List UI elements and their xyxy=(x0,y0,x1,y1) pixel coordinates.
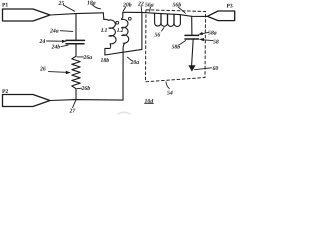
svg-text:18a: 18a xyxy=(87,0,96,6)
wire node 58 down to capacitor 58 xyxy=(191,16,193,35)
leader for 56b xyxy=(178,7,185,13)
leader for 58b xyxy=(180,41,186,45)
leader for 56 xyxy=(162,28,165,31)
underline of 10d xyxy=(145,103,154,105)
wire top rail from P1 to node 25 to corner 18a xyxy=(50,13,103,15)
svg-text:20b: 20b xyxy=(122,1,132,8)
svg-text:58: 58 xyxy=(213,40,219,46)
capacitor 58 plate 58b xyxy=(185,38,199,40)
svg-text:58a: 58a xyxy=(208,30,217,36)
port P1 connector xyxy=(3,9,51,21)
transformer winding L1 xyxy=(109,20,116,44)
wire resistor bottom to node 27 on bottom rail xyxy=(75,89,77,100)
leader for 24a xyxy=(60,30,73,33)
leader for 27 xyxy=(73,100,76,107)
wire riser from jumper up to node 22 on rail xyxy=(141,12,143,49)
svg-text:18b: 18b xyxy=(101,57,110,64)
inductor 56 loop 3 xyxy=(168,14,174,26)
leader for 26b xyxy=(77,87,82,90)
svg-text:L1: L1 xyxy=(100,28,108,34)
arrow for 58 xyxy=(204,39,213,42)
leader for 18a xyxy=(92,5,101,9)
wire capacitor branch top: node 25 down to cap 24 xyxy=(75,14,77,40)
resistor 26 xyxy=(72,56,80,88)
svg-text:P2: P2 xyxy=(2,89,8,95)
arrow for 24 xyxy=(47,40,63,42)
wire jumper from 18b to riser 22 xyxy=(105,49,142,55)
inductor 56 loop 4 xyxy=(174,14,180,26)
svg-text:L2: L2 xyxy=(116,28,124,34)
svg-text:24a: 24a xyxy=(49,29,59,35)
svg-text:26: 26 xyxy=(39,66,46,72)
wire corner down into L1 top xyxy=(103,13,109,20)
svg-text:60: 60 xyxy=(213,66,219,72)
dashed box 54 xyxy=(146,10,206,82)
capacitor 24 plate 24b xyxy=(66,43,84,45)
wire L2 bottom 20a down to bottom rail xyxy=(123,43,125,100)
leader for 56a xyxy=(150,7,151,11)
capacitor 24 plate 24a xyxy=(66,39,85,41)
port P2 connector xyxy=(3,95,51,107)
leader for 54 xyxy=(166,82,169,89)
leader for 25 xyxy=(63,5,74,11)
svg-text:24b: 24b xyxy=(51,44,61,51)
polarity dot of L1 xyxy=(116,21,119,24)
svg-text:54: 54 xyxy=(167,90,173,96)
capacitor 58 plate 58a xyxy=(185,34,199,36)
svg-text:20a: 20a xyxy=(130,60,140,66)
wire cap 24 bottom to resistor 26 top xyxy=(75,44,77,56)
polarity dot of L2 xyxy=(128,17,131,20)
svg-text:58b: 58b xyxy=(172,43,181,50)
wire capacitor 58 bottom to ground arrow 60 xyxy=(192,39,194,66)
leader for 24b xyxy=(61,45,68,46)
ground arrow 60 xyxy=(188,65,195,71)
svg-text:56b: 56b xyxy=(173,1,182,8)
arrow for 26 xyxy=(49,71,67,74)
faint bleed-through mark xyxy=(118,112,130,114)
svg-text:24: 24 xyxy=(39,39,46,45)
svg-text:26a: 26a xyxy=(83,55,93,61)
svg-text:27: 27 xyxy=(69,108,77,114)
wire secondary rail from L2 riser to node 22 to inductor 56 xyxy=(123,11,154,14)
wire bottom rail from P2 to node 27 to riser 20a xyxy=(50,99,123,102)
svg-text:P1: P1 xyxy=(2,3,8,9)
svg-text:26b: 26b xyxy=(81,85,91,92)
svg-text:56a: 56a xyxy=(145,3,154,9)
wire L2 top riser from rail down into L2 xyxy=(122,12,123,19)
svg-text:22: 22 xyxy=(137,2,144,8)
inductor 56 top line xyxy=(154,13,180,14)
leader for 60 xyxy=(195,68,212,70)
svg-text:25: 25 xyxy=(58,1,65,7)
wire L1 bottom 18b down to jumper xyxy=(105,44,111,55)
svg-text:56: 56 xyxy=(155,33,161,39)
leader for 20b xyxy=(123,7,125,11)
transformer winding L2 xyxy=(122,19,129,43)
wire from inductor 56 to node 58 to P3 xyxy=(180,15,208,17)
port P3 connector xyxy=(207,11,234,21)
leader tick for 22 xyxy=(140,6,143,11)
leader for 20a xyxy=(128,57,132,60)
inductor 56 loop 1 xyxy=(155,13,161,26)
leader for 26a xyxy=(77,56,84,58)
inductor 56 loop 2 xyxy=(161,14,167,27)
arrow for 58a xyxy=(203,32,209,33)
svg-text:P3: P3 xyxy=(227,3,233,9)
